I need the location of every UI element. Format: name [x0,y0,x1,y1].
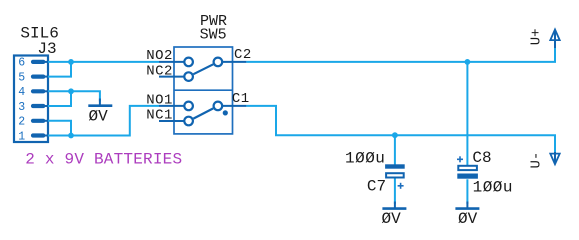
capacitor C8 [457,166,478,179]
svg-text:ØV: ØV [382,210,402,228]
svg-text:C7: C7 [367,178,386,196]
power flag U- [550,152,559,164]
junction C8 tap on U+ net [465,59,471,65]
wire C7 branch down [394,135,396,164]
C7 polarity + [398,183,404,189]
svg-text:NC2: NC2 [146,63,173,79]
svg-text:1: 1 [18,130,25,143]
svg-text:C2: C2 [234,47,252,63]
capacitor C7 [385,164,405,177]
J3 pin 2 [18,116,47,129]
wire pin5 up to pin6 net [48,62,71,77]
ground symbol 0V (C8) [455,202,479,209]
J3 pin 5 [18,71,47,84]
wire C1 to U- flag [246,106,555,153]
svg-text:NO1: NO1 [146,92,173,108]
wire pin6 to NO2 [48,61,159,63]
svg-text:SW5: SW5 [200,27,227,44]
power flag U+ [550,30,559,49]
SW5 pole2 lever [193,64,213,74]
SW5 pin NO1 [159,105,184,107]
C8 polarity + [457,156,463,162]
SW5 pole2 common C2 [214,58,223,67]
svg-text:2 x 9V BATTERIES: 2 x 9V BATTERIES [25,151,182,169]
SW5 pole1 marker dot [223,110,228,115]
svg-text:C1: C1 [232,91,250,107]
SW5 pin C1 [222,105,246,107]
svg-text:NC1: NC1 [146,108,173,124]
junction pin3/pin4 [68,88,74,94]
J3 pin 1 [18,130,47,143]
svg-text:6: 6 [18,57,25,70]
svg-text:U+: U+ [528,28,544,45]
svg-text:J3: J3 [37,40,56,58]
svg-text:ØV: ØV [89,108,109,126]
svg-text:1ØØu: 1ØØu [473,179,513,197]
svg-text:NO2: NO2 [146,48,173,64]
J3 pin 3 [18,101,47,114]
SW5 pin NO2 [159,61,184,63]
connector J3 body [14,56,48,143]
SW5 pin NC2 [159,76,184,78]
ground symbol 0V (under switch) [88,99,112,106]
svg-text:3: 3 [18,101,25,114]
svg-text:5: 5 [18,71,25,84]
SW5 pole1 common C1 [214,102,223,111]
junction C7 tap on U- net [392,132,398,138]
wire pin2 down to pin1 net [48,121,71,136]
wire C8 to ground [466,179,468,204]
SW5 pole2 contact NC2 [184,72,193,81]
SW5 pole1 lever [193,108,213,118]
wire pin3 up to pin4 net [48,91,71,106]
SW5 pole1 contact NC1 [184,117,193,126]
SW5 pin NC1 [159,120,184,122]
switch SW5 body [174,47,233,134]
J3 pin 6 [18,57,47,70]
wire C7 to ground [394,179,396,205]
SW5 pole1 contact NO1 [184,102,193,111]
wire C8 branch down [466,62,468,165]
svg-text:U-: U- [528,152,544,169]
junction pin1/pin2 [68,133,74,139]
SW5 pole2 contact NO2 [184,58,193,67]
svg-text:ØV: ØV [458,210,478,228]
svg-text:2: 2 [18,116,25,129]
J3 pin 4 [18,86,47,99]
ground symbol 0V (C7) [382,202,406,209]
wire pin1 to NO1 [48,106,159,136]
wire C2 to U+ flag [246,48,555,62]
svg-text:1ØØu: 1ØØu [345,150,385,168]
junction pin5/pin6 [68,59,74,65]
svg-text:4: 4 [18,86,25,99]
wire pin4 to ground [48,91,100,101]
SW5 pin C2 [222,61,246,63]
svg-text:C8: C8 [472,149,491,167]
